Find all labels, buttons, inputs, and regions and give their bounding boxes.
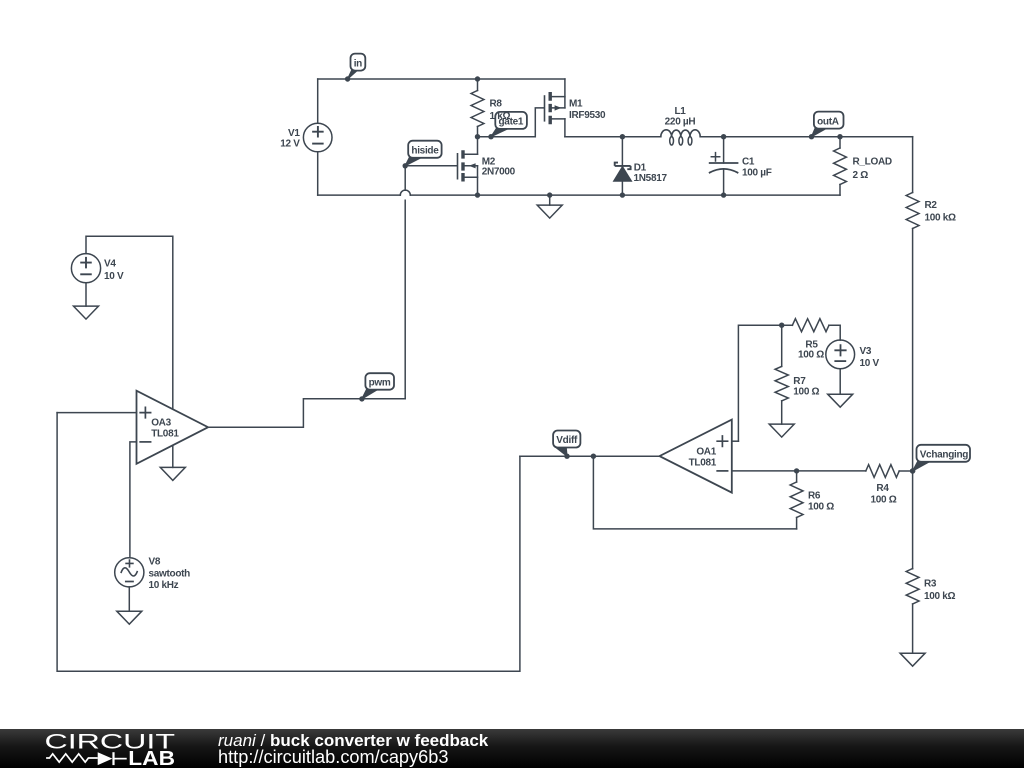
CircuitLab logo <box>40 728 190 768</box>
svg-text:100 Ω: 100 Ω <box>793 387 819 398</box>
svg-text:R2: R2 <box>925 200 938 211</box>
resistor R4 <box>866 465 916 506</box>
wire OA3 V- pin to ground <box>172 446 174 468</box>
svg-text:2N7000: 2N7000 <box>482 167 516 178</box>
svg-text:L1: L1 <box>674 106 686 117</box>
ground R7 <box>769 424 794 437</box>
wire OA3 minus input to V8 <box>130 442 137 558</box>
svg-text:TL081: TL081 <box>689 457 717 468</box>
wire OA1 minus to R6/R4 <box>732 470 866 472</box>
wire L1 to corner at R2 branch <box>700 136 912 138</box>
svg-text:10 kHz: 10 kHz <box>149 580 179 591</box>
wire hop over hiside net <box>400 190 410 195</box>
svg-text:TL081: TL081 <box>151 428 179 439</box>
node pwm flag <box>359 373 394 401</box>
svg-text:100 µF: 100 µF <box>742 168 772 179</box>
wire OA1 output (Vdiff net) <box>520 455 660 457</box>
svg-text:R_LOAD: R_LOAD <box>853 157 892 168</box>
voltage source V8 sawtooth <box>115 557 190 591</box>
svg-text:LAB: LAB <box>128 748 175 768</box>
wire feedback loop (plus input to Vdiff) <box>57 413 520 672</box>
wire R2 to Vchanging <box>912 229 914 472</box>
svg-text:V1: V1 <box>288 128 300 139</box>
svg-text:10 V: 10 V <box>104 271 124 282</box>
svg-text:V4: V4 <box>104 259 116 270</box>
wire OA3 plus input <box>57 412 136 414</box>
wire pwm riser (hiside down through hop to pwm corner) <box>404 166 406 399</box>
wire V1 top to rail <box>317 79 319 123</box>
node outA flag <box>809 112 844 140</box>
resistor R6 <box>790 468 834 529</box>
node gate1: wire R8 bottom to M1 gate riser <box>478 108 544 137</box>
wire top rail <box>318 78 565 80</box>
svg-text:12 V: 12 V <box>280 139 300 150</box>
svg-text:1 kΩ: 1 kΩ <box>490 111 511 122</box>
wire R5 to V3 <box>829 325 840 340</box>
svg-text:1N5817: 1N5817 <box>634 173 668 184</box>
transistor M2 2N7000 (NMOS) <box>458 137 516 195</box>
svg-text:outA: outA <box>817 116 839 127</box>
wire V4 bottom <box>85 283 87 306</box>
diode D1 1N5817 <box>614 134 668 198</box>
svg-text:100 Ω: 100 Ω <box>798 350 824 361</box>
footer bar <box>0 729 1024 768</box>
resistor R8 <box>471 76 510 136</box>
svg-text:10 V: 10 V <box>860 358 880 369</box>
wire hiside to M2 gate <box>405 165 457 167</box>
svg-text:100 kΩ: 100 kΩ <box>924 591 956 602</box>
node Vchanging flag <box>910 445 970 474</box>
ground V4 <box>74 306 99 319</box>
svg-text:2 Ω: 2 Ω <box>853 170 869 181</box>
svg-text:OA3: OA3 <box>151 418 171 429</box>
svg-text:V3: V3 <box>860 346 872 357</box>
svg-text:pwm: pwm <box>369 377 391 388</box>
svg-text:R3: R3 <box>924 579 937 590</box>
svg-text:OA1: OA1 <box>696 447 716 458</box>
node hiside flag <box>403 141 442 169</box>
wire R3 to ground <box>912 604 914 653</box>
wire V3 to ground <box>839 369 841 394</box>
svg-text:R4: R4 <box>876 483 889 494</box>
svg-text:Vchanging: Vchanging <box>920 450 969 461</box>
ground V8 <box>117 611 142 624</box>
svg-text:R6: R6 <box>808 491 821 502</box>
feedback: output junction down to rail <box>591 454 797 529</box>
op-amp OA1 TL081 <box>660 420 732 493</box>
svg-text:in: in <box>354 58 362 69</box>
voltage source V3 <box>826 340 880 369</box>
wire OA1 plus riser to R5 <box>738 325 792 441</box>
ground V3 <box>828 394 853 407</box>
transistor M1 IRF9530 (PMOS) <box>545 79 606 137</box>
svg-text:C1: C1 <box>742 157 755 168</box>
wire OA1 plus stub <box>732 440 739 442</box>
wire mid rail M1 drain to L1 <box>565 136 661 138</box>
wire V4 top to OA3 V+ <box>86 236 173 409</box>
svg-text:220 µH: 220 µH <box>665 117 696 128</box>
wire bottom rail left of hop <box>318 194 401 196</box>
svg-text:D1: D1 <box>634 163 647 174</box>
svg-text:R8: R8 <box>490 99 503 110</box>
voltage source V1 <box>280 123 332 152</box>
svg-text:100 Ω: 100 Ω <box>808 501 834 512</box>
title text <box>218 731 488 750</box>
capacitor C1 100 µF <box>710 134 772 198</box>
svg-text:R7: R7 <box>793 376 806 387</box>
wire V8 bottom <box>128 587 130 611</box>
wire OA3 output to pwm corner <box>208 399 405 427</box>
svg-text:R5: R5 <box>805 339 818 350</box>
resistor R3 <box>906 569 955 605</box>
url text <box>218 748 449 767</box>
node in flag <box>345 54 365 82</box>
svg-text:100 kΩ: 100 kΩ <box>925 213 957 224</box>
ground R3 <box>900 653 925 666</box>
node gate1 flag <box>488 112 527 139</box>
wire Vchanging to R3 <box>912 471 914 569</box>
svg-text:Vdiff: Vdiff <box>556 435 578 446</box>
ground OA3 <box>160 467 185 480</box>
svg-text:sawtooth: sawtooth <box>149 568 191 579</box>
svg-text:V8: V8 <box>149 557 161 568</box>
op-amp OA3 TL081 <box>137 391 209 464</box>
svg-text:M1: M1 <box>569 99 583 110</box>
node Vdiff flag <box>553 431 580 459</box>
wire V1 bottom <box>317 152 319 195</box>
svg-text:100 Ω: 100 Ω <box>871 494 897 505</box>
inductor L1 220 µH <box>661 106 700 145</box>
resistor R_LOAD <box>834 134 892 195</box>
svg-text:IRF9530: IRF9530 <box>569 110 606 121</box>
wire bottom rail right of hop <box>410 194 840 196</box>
resistor R7 <box>775 323 819 425</box>
resistor R2 <box>906 137 956 229</box>
ground mid (bottom rail) <box>537 192 562 218</box>
svg-text:hiside: hiside <box>411 146 439 157</box>
resistor R5 <box>792 319 829 361</box>
voltage source V4 <box>71 254 124 283</box>
